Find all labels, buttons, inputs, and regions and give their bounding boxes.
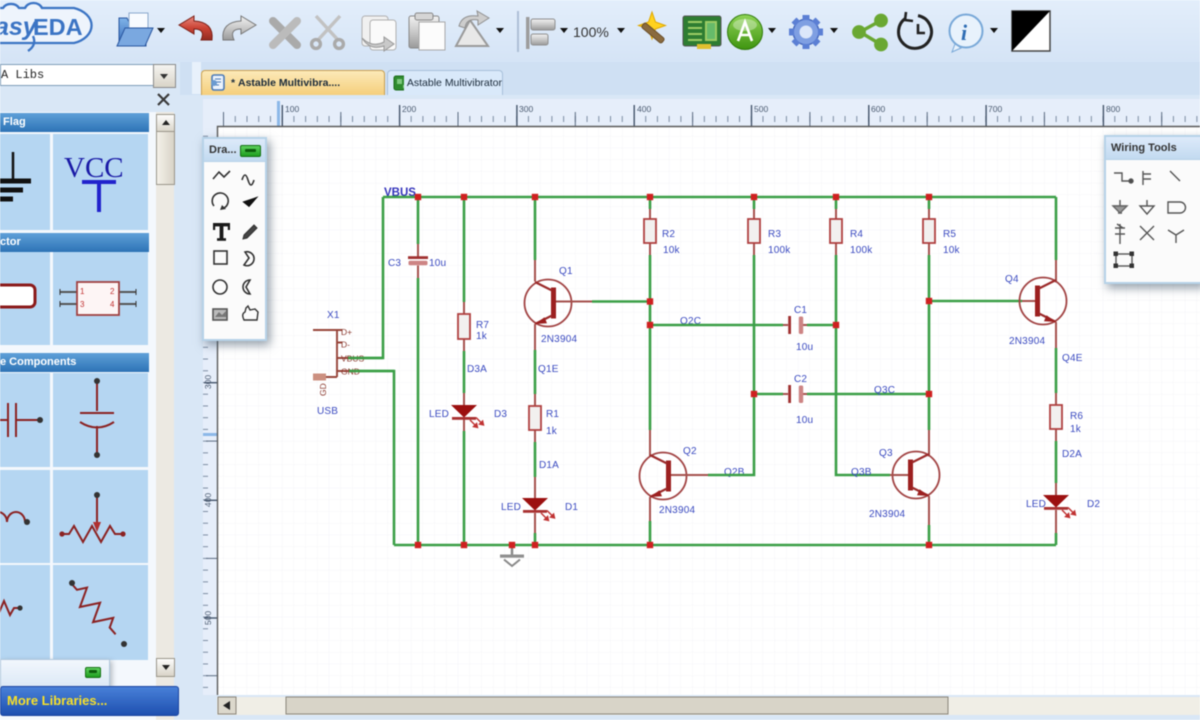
TAB BAR — [180, 62, 1200, 96]
svg-text:Q1E: Q1E — [538, 364, 559, 375]
svg-text:D3: D3 — [494, 409, 507, 420]
svg-text:Q4: Q4 — [1005, 274, 1019, 285]
svg-text:Q2B: Q2B — [724, 467, 745, 478]
junction Q1 collector at VBUS rail — [532, 194, 538, 200]
junction C1 right node at R4 — [833, 322, 839, 328]
junction D3 at ground rail — [461, 542, 467, 548]
svg-text:USB: USB — [317, 406, 338, 417]
wire Q1 base to R2 branch — [592, 300, 650, 303]
svg-text:D2A: D2A — [1062, 449, 1082, 460]
minimized palette — [0, 659, 110, 687]
svg-text:Q1: Q1 — [559, 266, 573, 277]
wire R1 to LED D1 — [534, 442, 537, 477]
svg-text:D1: D1 — [565, 502, 578, 513]
junction C2 right node Q3C — [926, 391, 932, 397]
svg-text:C1: C1 — [794, 305, 807, 316]
junction R2 at VBUS rail — [647, 194, 653, 200]
magic wand — [639, 12, 666, 44]
sidebar scrollbar — [156, 112, 174, 720]
junction Q4 base tap on R5 branch — [926, 298, 932, 304]
gear — [789, 15, 823, 49]
svg-text:1k: 1k — [1070, 424, 1082, 435]
svg-text:D+: D+ — [341, 327, 352, 337]
svg-text:LED: LED — [1026, 499, 1046, 510]
major ticks v + rotated numbers — [204, 265, 217, 619]
svg-text:2: 2 — [110, 287, 115, 296]
svg-text:R2: R2 — [662, 229, 675, 240]
svg-text:3: 3 — [80, 300, 85, 309]
vertical ruler — [203, 126, 217, 695]
svg-text:2N3904: 2N3904 — [1009, 336, 1045, 347]
transistor Q4 2N3904 — [1005, 197, 1067, 348]
junction D1 at ground rail — [532, 542, 538, 548]
svg-text:i: i — [961, 20, 968, 45]
copy — [362, 16, 396, 51]
LED D3 — [429, 393, 507, 545]
paste — [409, 13, 445, 50]
wire Q4 emitter to R6 — [1055, 348, 1058, 393]
junction R5 at VBUS rail — [926, 194, 932, 200]
wire over USB GND pin — [349, 370, 394, 373]
junction ground symbol at rail — [509, 542, 515, 548]
wire Q2 base to C2 left node — [708, 394, 754, 475]
green sphere — [728, 15, 763, 50]
svg-text:10u: 10u — [429, 258, 446, 269]
svg-text:GD: GD — [318, 383, 328, 396]
wire VBUS rail — [383, 196, 1056, 199]
section: passive components — [0, 353, 149, 372]
ground — [500, 545, 524, 566]
svg-text:C3: C3 — [388, 258, 401, 269]
svg-text:D1A: D1A — [539, 460, 559, 471]
svg-text:2N3904: 2N3904 — [659, 505, 695, 516]
wire R4 node down to Q3 base — [836, 325, 890, 475]
svg-text:10k: 10k — [943, 245, 961, 256]
svg-text:Q3C: Q3C — [874, 385, 895, 396]
CANVAS AREA — [180, 95, 1200, 720]
svg-text:D-: D- — [341, 340, 350, 350]
svg-text:10k: 10k — [663, 245, 681, 256]
delete X — [273, 21, 297, 45]
More Libraries button — [0, 686, 179, 716]
transistor Q2 2N3904 — [640, 430, 709, 521]
wire Q1 emitter to R1 — [534, 350, 537, 394]
svg-text:D3A: D3A — [467, 364, 487, 375]
junction C3 at ground rail — [415, 542, 421, 548]
svg-text:VCC: VCC — [64, 152, 124, 184]
resistor R3 — [748, 197, 791, 394]
junction R3 at VBUS rail — [751, 194, 757, 200]
section: connector — [0, 233, 149, 252]
info bubble — [950, 15, 983, 53]
transistor Q1 2N3904 — [525, 197, 593, 350]
rulers + canvas backing — [180, 95, 1200, 720]
canvas border + white — [217, 126, 1200, 695]
svg-text:2N3904: 2N3904 — [541, 334, 577, 345]
capacitor C3 — [388, 197, 446, 545]
medium ticks v — [206, 206, 217, 676]
svg-text:4: 4 — [110, 300, 115, 309]
panel white backing — [0, 112, 156, 720]
junction C1 left node Q2C — [647, 322, 653, 328]
svg-text:LED: LED — [501, 502, 521, 513]
svg-text:10u: 10u — [796, 342, 813, 353]
open folder icon — [117, 13, 153, 46]
resistor R7 — [458, 197, 489, 393]
svg-text:2N3904: 2N3904 — [869, 509, 905, 520]
svg-text:X1: X1 — [327, 310, 340, 321]
connector X1 USB — [313, 310, 352, 417]
junction C3 at VBUS rail — [415, 194, 421, 200]
svg-text:C2: C2 — [794, 374, 807, 385]
library combo — [0, 64, 155, 86]
LED D2 — [1026, 483, 1100, 545]
resistor R5 — [923, 197, 961, 430]
wire R6 to LED D2 — [1055, 441, 1058, 483]
redo — [223, 16, 256, 40]
Wiring Tools palette — [1104, 135, 1200, 284]
separator — [517, 11, 519, 52]
svg-text:100%: 100% — [573, 24, 609, 40]
svg-text:Q3: Q3 — [879, 448, 893, 459]
resistor R2 — [644, 197, 681, 430]
junction Q2 emitter at ground rail — [647, 542, 653, 548]
wire over USB VBUS pin — [348, 357, 383, 360]
capacitor C1 — [650, 305, 836, 353]
LED D1 — [501, 477, 578, 545]
wire Q2 emitter to ground rail — [649, 521, 652, 545]
SIDEBAR — [0, 62, 180, 720]
wire Q3 emitter to ground rail — [928, 525, 931, 545]
Drawing Tools palette — [202, 137, 267, 341]
junction C2 left node at R3 — [751, 391, 757, 397]
svg-text:R3: R3 — [768, 229, 781, 240]
svg-text:10u: 10u — [796, 415, 813, 426]
svg-text:R7: R7 — [476, 320, 489, 331]
cursor markers — [277, 101, 280, 126]
theme toggle — [1012, 11, 1050, 51]
medium ticks h — [223, 112, 1162, 126]
svg-text:100k: 100k — [850, 245, 873, 256]
junction R7 at VBUS rail — [461, 194, 467, 200]
svg-text:1k: 1k — [546, 426, 558, 437]
section: Flag — [0, 113, 149, 132]
svg-text:Q2: Q2 — [683, 446, 697, 457]
share — [854, 15, 886, 49]
resistor R6 — [1050, 393, 1083, 441]
svg-text:R5: R5 — [943, 229, 956, 240]
svg-text:Q4E: Q4E — [1062, 353, 1083, 364]
TOP TOOLBAR — [0, 0, 1200, 62]
wire ground rail — [394, 544, 1056, 547]
junction Q3 emitter at ground rail — [926, 542, 932, 548]
close X — [155, 91, 173, 109]
wire VBUS drop to USB — [348, 197, 383, 358]
svg-text:Q3B: Q3B — [851, 467, 872, 478]
svg-text:R1: R1 — [546, 409, 559, 420]
undo — [179, 16, 212, 40]
junction Q1 base tap on R2 branch — [647, 298, 653, 304]
svg-text:100k: 100k — [768, 245, 791, 256]
transistor Q3 2N3904 — [869, 430, 940, 525]
align icon — [526, 17, 555, 49]
capacitor C2 — [754, 374, 929, 426]
horizontal scrollbar — [217, 697, 1200, 715]
svg-text:EDA: EDA — [33, 14, 83, 40]
svg-text:R6: R6 — [1070, 411, 1083, 422]
wire Q4 base to R5 branch — [929, 300, 1022, 303]
rotate — [456, 11, 489, 46]
pcb chip — [683, 16, 721, 49]
wire USB GND to bottom rail — [349, 371, 394, 545]
resistor R1 — [529, 394, 559, 442]
svg-text:R4: R4 — [850, 229, 863, 240]
svg-text:D2: D2 — [1087, 499, 1100, 510]
resistor R4 — [830, 197, 873, 325]
svg-text:1k: 1k — [476, 331, 488, 342]
svg-text:LED: LED — [429, 409, 449, 420]
horizontal ruler — [203, 99, 1200, 126]
logo cloud — [0, 3, 92, 43]
history clock — [899, 12, 932, 48]
svg-text:1: 1 — [80, 287, 85, 296]
junction R4 at VBUS rail — [833, 194, 839, 200]
scissors — [312, 16, 344, 48]
major ticks h — [282, 105, 1105, 126]
